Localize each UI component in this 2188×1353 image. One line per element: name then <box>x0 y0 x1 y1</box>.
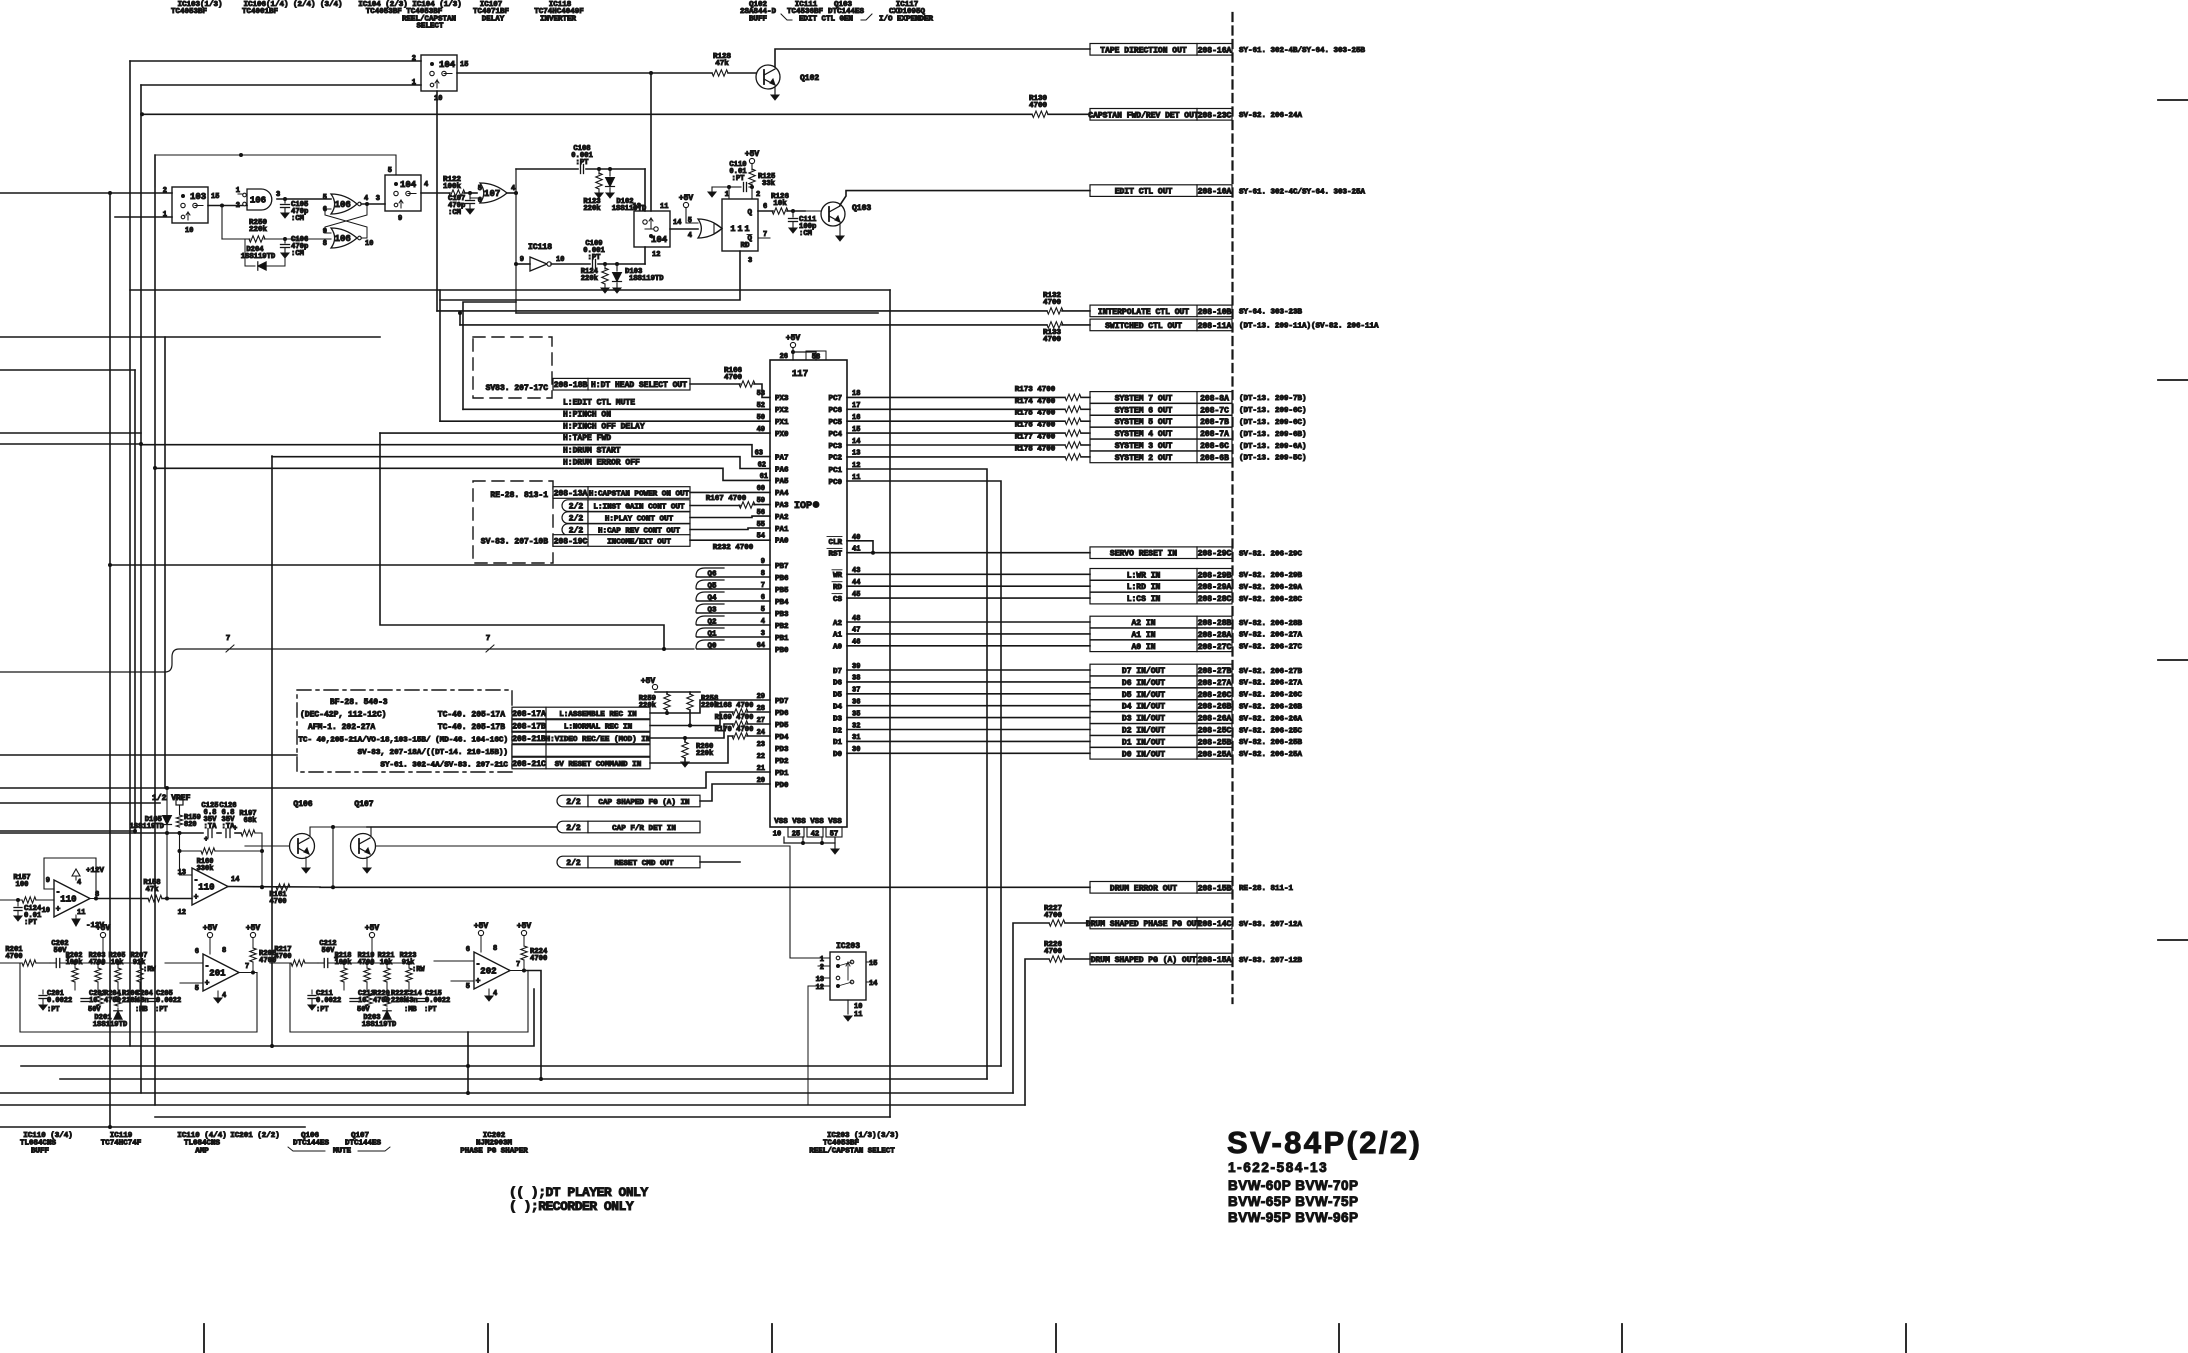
wire control line to connector <box>847 597 1090 599</box>
svg-text:DRUM SHAPED PHASE PG OUT: DRUM SHAPED PHASE PG OUT <box>1086 920 1201 929</box>
svg-text:208-25C: 208-25C <box>1198 727 1232 736</box>
svg-text:50V: 50V <box>322 947 336 955</box>
svg-text:R167 4700: R167 4700 <box>706 495 747 503</box>
svg-text:5: 5 <box>323 194 327 202</box>
svg-text:NJM2903M: NJM2903M <box>476 1140 513 1148</box>
label Q103 names <box>828 1 865 16</box>
svg-text:-: - <box>205 962 210 971</box>
capacitor C105 470p <box>281 199 309 223</box>
svg-text:+5V: +5V <box>365 924 380 933</box>
resistor R122 100k <box>443 176 482 205</box>
svg-text:CS: CS <box>833 596 843 604</box>
svg-text:4: 4 <box>688 232 692 240</box>
svg-text::CM: :CM <box>291 250 304 258</box>
svg-text:208-26C: 208-26C <box>1198 691 1232 700</box>
resistor R158 47k <box>143 879 192 902</box>
svg-text:PD4: PD4 <box>775 734 789 742</box>
svg-text:PX2: PX2 <box>775 407 789 415</box>
IC203 ground pins 10 11 <box>844 1000 862 1021</box>
connector blank row <box>512 745 650 757</box>
wire junction drop x333 <box>331 827 335 889</box>
connector 208-27B D7 IN/OUT <box>1090 664 1303 676</box>
svg-text:R232 4700: R232 4700 <box>713 544 754 552</box>
svg-text:L:ASSEMBLE REC IN: L:ASSEMBLE REC IN <box>559 711 637 719</box>
connector 208-29B L:WR IN <box>1090 569 1303 581</box>
svg-text:H:DRUM ERROR OFF: H:DRUM ERROR OFF <box>563 459 640 468</box>
svg-text:PC0: PC0 <box>828 479 842 487</box>
wire bus y444 tape fwd feed <box>0 443 141 445</box>
resistor R227 4700 label <box>1044 905 1063 920</box>
svg-text:11: 11 <box>660 203 668 211</box>
svg-text:4: 4 <box>364 195 368 203</box>
wire address line to connector <box>847 633 1090 635</box>
resistor R259 220k pullup <box>639 692 670 713</box>
connector 208-16A TAPE DIRECTION OUT <box>1090 44 1366 56</box>
svg-text:208-11A: 208-11A <box>1198 322 1232 331</box>
svg-text:BUFF: BUFF <box>31 1148 50 1156</box>
svg-text:H:DRUM START: H:DRUM START <box>563 447 621 456</box>
svg-text:10: 10 <box>854 1003 862 1011</box>
vertical drop x272 drum start <box>270 456 274 1048</box>
svg-text:59: 59 <box>757 497 765 505</box>
wire long y290 <box>130 289 890 291</box>
svg-text:111: 111 <box>730 224 751 234</box>
svg-text:220k: 220k <box>696 750 714 758</box>
svg-text:208-25A: 208-25A <box>1198 750 1232 759</box>
wire data line to connector <box>847 693 1090 695</box>
wire address line to connector <box>847 621 1090 623</box>
svg-text:0.0022: 0.0022 <box>47 997 72 1005</box>
connector 208-25A D0 IN/OUT <box>1090 748 1303 760</box>
svg-text:RD: RD <box>833 584 843 592</box>
wire RD pin3 drop <box>440 251 740 300</box>
wire data line to connector <box>847 740 1090 742</box>
right edge alignment tick marks <box>2158 100 2188 940</box>
svg-text:D3: D3 <box>833 715 843 723</box>
diode D201 1SS119TD <box>93 1008 128 1029</box>
svg-text:DRUM ERROR OUT: DRUM ERROR OUT <box>1110 884 1177 893</box>
svg-text:1SS119TD: 1SS119TD <box>129 823 164 831</box>
pin labels PX3-PX0 <box>757 390 789 439</box>
wire +5V rail over pullups <box>641 677 700 692</box>
svg-text:(DT-13. 209-6C): (DT-13. 209-6C) <box>1239 419 1307 427</box>
svg-text:208-14C: 208-14C <box>1198 920 1232 929</box>
svg-text:208-26B: 208-26B <box>1198 703 1232 712</box>
svg-text:D7: D7 <box>833 668 842 676</box>
vertical wire x890 right loop <box>889 290 891 1117</box>
svg-text:4700: 4700 <box>1043 299 1062 307</box>
flag 2/2 L:INST GAIN CONT OUT <box>562 500 740 512</box>
svg-text:208-28B: 208-28B <box>1198 619 1232 628</box>
svg-text::PT: :PT <box>576 159 590 167</box>
svg-text:SY-61. 302-4C/SY-64. 303-25A: SY-61. 302-4C/SY-64. 303-25A <box>1239 188 1366 196</box>
svg-text:INTERPOLATE CTL OUT: INTERPOLATE CTL OUT <box>1098 308 1189 317</box>
wire data line to connector <box>847 669 1090 671</box>
svg-text:0.0022: 0.0022 <box>316 997 341 1005</box>
vertical bus wire x155 <box>154 155 156 1105</box>
wire pin13 from C108 line <box>644 169 646 211</box>
svg-text:SY-61. 302-4B/SY-64. 303-25B: SY-61. 302-4B/SY-64. 303-25B <box>1239 47 1366 55</box>
svg-text::RW: :RW <box>412 966 425 974</box>
svg-text:DRUM SHAPED PG (A) OUT: DRUM SHAPED PG (A) OUT <box>1091 956 1197 965</box>
resistor R123 220k <box>583 169 603 213</box>
svg-text:7: 7 <box>516 961 520 969</box>
svg-text:A2: A2 <box>833 620 843 628</box>
svg-text:(DT-13. 209-6A): (DT-13. 209-6A) <box>1239 443 1307 451</box>
svg-text:104: 104 <box>439 60 456 70</box>
svg-text:8: 8 <box>323 240 327 248</box>
label IC118 names <box>534 1 584 23</box>
svg-text:AFM-1. 202-27A: AFM-1. 202-27A <box>308 723 375 732</box>
svg-text:R176 4700: R176 4700 <box>1015 422 1056 430</box>
svg-text:TL084CNS: TL084CNS <box>20 1140 57 1148</box>
svg-text:208-28A: 208-28A <box>1198 631 1232 640</box>
svg-text:208-21B: 208-21B <box>512 735 546 744</box>
wire NOR4 to IC104 pin3 <box>361 202 385 206</box>
resistor R125 33k and +5V <box>745 150 776 199</box>
svg-text::PT: :PT <box>424 1006 437 1014</box>
svg-text:BF-28. 540-3: BF-28. 540-3 <box>330 698 388 707</box>
svg-text:104: 104 <box>400 180 417 190</box>
svg-text:220k: 220k <box>581 275 599 283</box>
svg-text:10: 10 <box>556 256 564 264</box>
svg-text:208-13A: 208-13A <box>554 490 588 499</box>
svg-text:+5V: +5V <box>745 150 760 159</box>
svg-text:PB1: PB1 <box>775 635 789 643</box>
svg-text:PX0: PX0 <box>775 431 789 439</box>
svg-text:13: 13 <box>816 976 824 984</box>
+5V terminal op202 pin8 <box>474 922 489 952</box>
svg-text:4700: 4700 <box>274 953 291 961</box>
svg-text:11: 11 <box>77 909 85 917</box>
svg-text:4: 4 <box>222 992 226 1000</box>
wire data line to connector <box>847 717 1090 719</box>
svg-text:TC-40. 205-17B: TC-40. 205-17B <box>438 723 505 732</box>
pin labels PC7-PC0 <box>828 390 860 487</box>
connector 208-7C SYSTEM 6 OUT <box>1090 404 1307 416</box>
svg-text:PD6: PD6 <box>775 710 789 718</box>
svg-text:PC4: PC4 <box>828 431 842 439</box>
svg-text:4700: 4700 <box>724 374 743 382</box>
svg-text:5: 5 <box>388 167 392 175</box>
svg-text:23: 23 <box>757 741 765 749</box>
wire data line to connector <box>847 681 1090 683</box>
label Q106 Q107 mute group <box>288 1132 390 1156</box>
resistor R250 220k <box>222 206 287 243</box>
IC117 +5V supply pins 26 58 <box>780 334 826 362</box>
svg-text:10: 10 <box>773 831 781 839</box>
title model list <box>1228 1178 1359 1225</box>
svg-text:INVERTER: INVERTER <box>540 15 577 23</box>
analog switch IC104 (3/3) <box>633 203 682 259</box>
svg-text:1SS119TD: 1SS119TD <box>612 205 647 213</box>
dashed ref box RE-28.813-1 <box>473 481 553 563</box>
label EDIT CTL GEN group <box>781 14 872 23</box>
svg-text:50V: 50V <box>357 1006 370 1014</box>
resistor R226 4700 label <box>1044 941 1063 956</box>
pin labels PB7-PB0 <box>757 558 789 655</box>
svg-text:CAP F/R DET IN: CAP F/R DET IN <box>612 825 676 833</box>
junction drop x468 <box>466 1032 470 1095</box>
svg-text:SV-83. 207-10B: SV-83. 207-10B <box>481 538 548 547</box>
svg-text:IC118: IC118 <box>528 243 552 252</box>
wire left edge y337 to flag drop <box>0 336 380 338</box>
svg-text:SV83. 207-17C: SV83. 207-17C <box>486 384 549 393</box>
svg-text:4: 4 <box>424 181 428 189</box>
wire IC104 pin15 to Q102 base via R128 <box>457 71 712 75</box>
svg-text::CM: :CM <box>448 209 461 217</box>
connector 208-6B SYSTEM 2 OUT <box>1090 451 1307 463</box>
svg-text:+: + <box>476 977 481 986</box>
svg-text:SV-82. 206-27C: SV-82. 206-27C <box>1239 644 1303 652</box>
svg-text:SYSTEM 5 OUT: SYSTEM 5 OUT <box>1115 418 1173 427</box>
wire pin11 from top junction <box>650 73 652 211</box>
svg-text:D4: D4 <box>833 704 843 712</box>
svg-text:12: 12 <box>178 909 186 917</box>
svg-text:IOP: IOP <box>794 501 812 512</box>
svg-text:+: + <box>56 905 61 914</box>
svg-text:208-29B: 208-29B <box>1198 571 1232 580</box>
resistor network R202 R203 R205 R207 for IC201 <box>66 952 157 990</box>
svg-text:D1: D1 <box>833 739 843 747</box>
svg-text::MB: :MB <box>404 1006 417 1014</box>
svg-text::PT: :PT <box>47 1006 60 1014</box>
transistor Q102 2SA844 <box>756 49 1090 100</box>
svg-text::TA: :TA <box>204 823 218 831</box>
svg-text::CM: :CM <box>291 215 304 223</box>
cross-coupling wires of RS latch <box>325 204 367 238</box>
svg-text:PA4: PA4 <box>775 490 789 498</box>
svg-text:1SS119TD: 1SS119TD <box>629 275 664 283</box>
title part number 1-622-584-13 <box>1228 1160 1328 1175</box>
wire IC103-15 to NAND <box>208 204 247 208</box>
svg-text:6: 6 <box>195 948 199 956</box>
svg-text:D5: D5 <box>833 692 843 700</box>
svg-text:3: 3 <box>276 191 280 199</box>
svg-text:PC6: PC6 <box>828 407 842 415</box>
svg-text:Q: Q <box>747 235 752 243</box>
svg-text:0.0022: 0.0022 <box>156 997 181 1005</box>
svg-text:107: 107 <box>484 189 500 199</box>
svg-text:12: 12 <box>652 251 660 259</box>
capacitor C110 0.01 :PT <box>708 161 752 199</box>
svg-text:D0: D0 <box>833 751 843 759</box>
svg-text:Q102: Q102 <box>800 74 819 83</box>
svg-text:SV-83. 207-12B: SV-83. 207-12B <box>1239 957 1303 965</box>
capacitor C107 470p <box>448 193 475 217</box>
svg-text:202: 202 <box>480 967 496 977</box>
resistor R174 4700 on PC6 wire <box>847 398 1090 413</box>
svg-text:R175 4700: R175 4700 <box>1015 410 1056 418</box>
-12V arrow supply <box>72 915 105 930</box>
vertical bus wire x110 <box>109 193 111 1127</box>
wire left edge y755 <box>0 754 297 756</box>
svg-text:5: 5 <box>688 217 692 225</box>
svg-text:208-21C: 208-21C <box>512 760 546 769</box>
capacitor C108 0.001 :PT <box>516 145 645 174</box>
connector 208-29A L:RD IN <box>1090 580 1303 592</box>
pin labels WR RD CS <box>832 567 860 604</box>
svg-text:2/2: 2/2 <box>566 798 581 807</box>
resistor R177 4700 on PC3 wire <box>847 434 1090 449</box>
svg-text:R178 4700: R178 4700 <box>1015 445 1056 453</box>
svg-text:47k: 47k <box>715 60 729 68</box>
wire left edge y831 <box>0 829 137 833</box>
svg-text:117: 117 <box>792 369 808 379</box>
analog switch IC203 TC4053BF <box>816 942 878 1000</box>
svg-text:SY-64. 303-23B: SY-64. 303-23B <box>1239 309 1303 317</box>
svg-text:PHASE PG SHAPER: PHASE PG SHAPER <box>460 1148 528 1156</box>
resistor R201 4700 <box>0 946 50 966</box>
svg-text:208-19C: 208-19C <box>554 538 588 547</box>
svg-text:42: 42 <box>811 831 819 839</box>
svg-text:L:WR IN: L:WR IN <box>1127 571 1161 580</box>
svg-text:4700: 4700 <box>269 898 286 906</box>
svg-text:1-622-584-13: 1-622-584-13 <box>1228 1160 1328 1175</box>
svg-text::MB: :MB <box>135 1006 148 1014</box>
svg-text:8: 8 <box>222 947 226 955</box>
svg-text:4700: 4700 <box>1044 948 1063 956</box>
wire data line to connector <box>847 705 1090 707</box>
svg-text:PB2: PB2 <box>775 623 789 631</box>
wire address line to connector <box>847 645 1090 647</box>
wire top feedback to pin5 <box>155 153 396 187</box>
svg-text:D2: D2 <box>833 727 843 735</box>
svg-text:2/2: 2/2 <box>569 515 584 524</box>
svg-text:7: 7 <box>226 635 231 643</box>
svg-text:SV-82. 206-25C: SV-82. 206-25C <box>1239 727 1303 735</box>
signal flag H:PINCH OFF DELAY <box>380 423 770 434</box>
svg-text:PC5: PC5 <box>828 419 842 427</box>
transistor Q107 <box>351 800 376 873</box>
svg-text:3: 3 <box>748 257 752 265</box>
svg-text:D1 IN/OUT: D1 IN/OUT <box>1122 738 1165 747</box>
svg-text:14: 14 <box>869 980 877 988</box>
svg-text:H:VIDEO REC/EE (MOD) IN: H:VIDEO REC/EE (MOD) IN <box>546 736 651 744</box>
svg-text:220k: 220k <box>249 226 268 234</box>
resistor R169 4700 <box>650 714 770 738</box>
analog switch IC104 (top) <box>412 55 469 103</box>
svg-text:208-16A: 208-16A <box>1198 46 1232 55</box>
svg-text:SV-83. 207-12A: SV-83. 207-12A <box>1239 921 1303 929</box>
bus wire y1046 <box>0 989 534 1046</box>
svg-text:2: 2 <box>236 202 240 210</box>
NOR gate IC106 (2/4) <box>323 194 368 214</box>
bus wire y1066 <box>21 1064 1001 1068</box>
svg-text::CM: :CM <box>799 230 812 238</box>
svg-text:R174 4700: R174 4700 <box>1015 398 1056 406</box>
connector 208-7B SYSTEM 5 OUT <box>1090 415 1307 427</box>
svg-text:+: + <box>194 893 199 902</box>
svg-text::PT: :PT <box>316 1006 329 1014</box>
svg-text:PA7: PA7 <box>775 454 789 462</box>
svg-text:A1: A1 <box>833 632 843 640</box>
svg-text:58: 58 <box>812 354 820 362</box>
svg-text:PB6: PB6 <box>775 575 789 583</box>
svg-text:PB3: PB3 <box>775 611 789 619</box>
pin labels D7-D0 <box>833 663 860 759</box>
bus wire y1093 <box>0 1092 1013 1094</box>
bus wire y1117 <box>155 1116 890 1118</box>
loop wire op201 block <box>20 963 257 1032</box>
svg-text:H:CAPSTAN POWER ON OUT: H:CAPSTAN POWER ON OUT <box>589 491 690 499</box>
svg-text:L:CS IN: L:CS IN <box>1127 595 1161 604</box>
wire vref row y833 <box>0 831 264 889</box>
svg-text:208-26A: 208-26A <box>1198 715 1232 724</box>
OR gate into IC111 <box>698 219 722 238</box>
page-boundary dashed line <box>1231 13 1233 1003</box>
connector 208-7A SYSTEM 4 OUT <box>1090 427 1307 439</box>
op-amp IC202 phase PG shaper <box>434 945 520 1001</box>
resistor R159 820 <box>176 814 201 829</box>
connector 208-17A L:ASSEMBLE REC IN <box>512 707 650 719</box>
wire CAPSTAN FWD/REV det <box>140 112 1032 116</box>
vertical bus wire x141 <box>139 85 143 1093</box>
loop wire op202 block <box>290 963 528 1032</box>
svg-text:RD: RD <box>740 242 750 250</box>
svg-text:SELECT: SELECT <box>416 23 444 31</box>
svg-text:H:PINCH ON: H:PINCH ON <box>563 411 611 420</box>
label IC203 reel/capstan select <box>809 1132 899 1156</box>
svg-text:13: 13 <box>178 869 186 877</box>
IC111 TC4536BF timer <box>722 191 770 265</box>
svg-text:Q106: Q106 <box>293 800 312 809</box>
svg-text:SV-82. 206-25B: SV-82. 206-25B <box>1239 739 1303 747</box>
svg-text:+: + <box>204 836 208 844</box>
svg-text:D3 IN/OUT: D3 IN/OUT <box>1122 715 1165 724</box>
svg-text:-: - <box>194 876 199 885</box>
svg-text:SV-82. 206-29C: SV-82. 206-29C <box>1239 551 1303 559</box>
resistor R168 4700 <box>650 702 770 728</box>
svg-text:22: 22 <box>757 753 765 761</box>
svg-text:4700: 4700 <box>1029 102 1048 110</box>
svg-text:SYSTEM 3 OUT: SYSTEM 3 OUT <box>1115 442 1173 451</box>
label IC104 names <box>358 1 462 31</box>
wire long y313 <box>516 312 878 314</box>
resistor R161 4700 label <box>269 884 290 906</box>
vertical stub x155 drum error off <box>153 466 157 470</box>
svg-text:10: 10 <box>42 907 50 915</box>
wire NAND out to NOR <box>277 197 331 201</box>
svg-text:PC2: PC2 <box>828 455 842 463</box>
svg-text:PA6: PA6 <box>775 466 789 474</box>
resistor R130 4700 <box>1029 95 1090 118</box>
svg-text:2/2: 2/2 <box>566 824 581 833</box>
svg-text:1: 1 <box>725 191 729 199</box>
svg-text:TL084CNS: TL084CNS <box>184 1140 221 1148</box>
svg-text:RE-28. 811-1: RE-28. 811-1 <box>1239 885 1294 893</box>
svg-text:RE-28. 813-1: RE-28. 813-1 <box>490 491 548 500</box>
1/2 VREF terminal <box>152 794 191 814</box>
svg-text:7: 7 <box>486 635 491 643</box>
vertical bus wire x135 <box>134 370 136 833</box>
svg-text:D4 IN/OUT: D4 IN/OUT <box>1122 703 1165 712</box>
label IC111 names <box>787 1 824 16</box>
resistor R132 4700 <box>1043 292 1090 314</box>
svg-text:110: 110 <box>198 883 214 893</box>
connector 208-21C SV RESET COMMAND IN <box>512 757 650 769</box>
connector 208-14C DRUM SHAPED PHASE PG OUT <box>1086 917 1303 929</box>
svg-text:PB4: PB4 <box>775 599 789 607</box>
svg-text:D0 IN/OUT: D0 IN/OUT <box>1122 750 1165 759</box>
signal flag L:EDIT CTL MUTE <box>463 399 770 410</box>
flag 2/2 CAP F/R DET IN <box>367 821 700 833</box>
wire PC1 down to bottom bus <box>847 469 987 1079</box>
svg-text:SYSTEM 6 OUT: SYSTEM 6 OUT <box>1115 406 1173 415</box>
svg-text:+5V: +5V <box>679 194 694 203</box>
svg-text:103: 103 <box>190 192 206 202</box>
svg-text:47k: 47k <box>146 886 160 894</box>
